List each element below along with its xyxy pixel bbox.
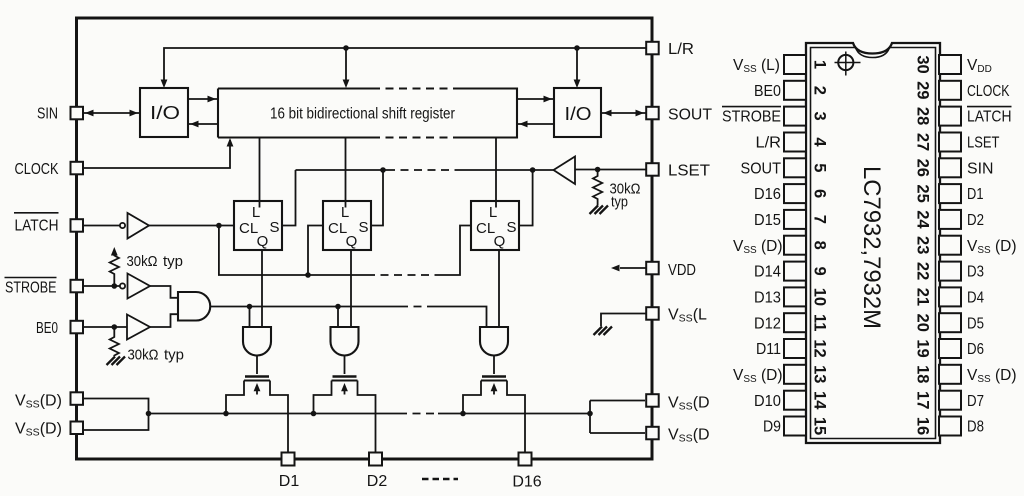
svg-text:10: 10 [811, 288, 829, 306]
svg-text:2: 2 [811, 86, 829, 95]
inverter STROBE buffer [82, 274, 150, 299]
transistor Q16 (output MOSFET D16) [463, 377, 525, 454]
svg-text:4: 4 [811, 137, 829, 147]
wire AND output bus [210, 304, 486, 327]
pin square D1 [282, 453, 295, 466]
svg-text:16: 16 [914, 417, 932, 435]
wire VSS(D) bus [83, 399, 645, 434]
svg-text:D4: D4 [967, 290, 984, 307]
svg-text:CL: CL [239, 220, 258, 237]
svg-text:L: L [489, 204, 497, 221]
ground at BE0 resistor [107, 357, 126, 366]
pin square LSET [646, 163, 659, 176]
label 30k typ at BE0 [128, 347, 185, 364]
svg-text:D12: D12 [754, 315, 781, 332]
pin 24 D2 [914, 210, 985, 229]
buffer LSET (triangle) [554, 157, 647, 185]
svg-text:L: L [341, 204, 349, 221]
svg-text:LATCH: LATCH [15, 218, 59, 235]
wire VSS(L) to ground [601, 314, 646, 327]
svg-text:D15: D15 [754, 212, 781, 229]
pin square VSS(D) left 1 [71, 392, 84, 405]
svg-text:typ: typ [164, 347, 184, 364]
buffer BE0 (triangle) [82, 315, 150, 340]
latch FF16 [471, 201, 519, 250]
svg-text:26: 26 [914, 159, 932, 177]
inverter LATCH buffer [83, 213, 149, 239]
pin 2 BE0 [754, 81, 829, 100]
pin 23 Vss(D) [914, 236, 1017, 256]
pin 6 D16 [754, 184, 829, 203]
svg-text:BE0: BE0 [754, 83, 781, 100]
svg-text:LSET: LSET [967, 135, 1000, 152]
svg-text:9: 9 [811, 267, 829, 276]
pin square VSS(D) right 2 [646, 427, 659, 440]
svg-text:typ: typ [163, 253, 183, 270]
pin 13 Vss(D) [733, 365, 829, 385]
svg-text:D8: D8 [967, 419, 984, 436]
svg-text:LSET: LSET [668, 163, 710, 180]
svg-text:S: S [507, 219, 517, 236]
pin 21 D4 [914, 287, 985, 306]
pin 20 D5 [914, 313, 985, 332]
pin 12 D11 [756, 339, 829, 358]
wire shift register to latch L inputs [260, 138, 497, 201]
wire CLOCK to shift register [83, 138, 233, 168]
svg-text:17: 17 [914, 391, 932, 409]
svg-text:D9: D9 [763, 419, 781, 436]
pin 19 D6 [914, 339, 985, 358]
pin square L/R [646, 42, 659, 55]
svg-text:I/O: I/O [150, 103, 180, 123]
wire I/O 1 to shift register (two arrows) [188, 96, 218, 128]
svg-text:VSS (D): VSS (D) [967, 238, 1017, 256]
svg-text:S: S [270, 219, 280, 236]
pin square D16 [519, 453, 532, 466]
AND gate A16 (driver 16) [480, 327, 508, 374]
pin 27 LSET [914, 133, 1000, 152]
svg-text:30: 30 [914, 55, 932, 73]
svg-text:L: L [252, 204, 260, 221]
pin 30 VDD [914, 55, 992, 75]
pin square LATCH [71, 219, 84, 232]
pin square D2 [369, 453, 382, 466]
pin square SIN [71, 107, 84, 120]
wire LATCH to latch CL inputs [149, 223, 471, 278]
svg-text:D14: D14 [754, 264, 781, 281]
svg-text:12: 12 [811, 339, 829, 357]
svg-text:CL: CL [328, 220, 347, 237]
svg-text:D1: D1 [967, 186, 984, 203]
wire I/O 2 to SOUT (bidirectional) [601, 110, 646, 117]
label 30k typ at LSET [610, 181, 641, 211]
svg-text:SIN: SIN [37, 106, 58, 123]
pin 1 index marker [835, 52, 861, 76]
svg-text:I/O: I/O [565, 104, 592, 124]
svg-text:typ: typ [611, 194, 628, 211]
svg-text:SOUT: SOUT [741, 160, 782, 177]
svg-text:3: 3 [811, 112, 829, 121]
resistor 30k pull at LSET [593, 167, 602, 206]
pin 7 D15 [754, 210, 829, 229]
svg-text:L/R: L/R [756, 135, 782, 152]
wire LSET net to latch S inputs [282, 167, 554, 225]
svg-text:D10: D10 [754, 393, 781, 410]
svg-text:VDD: VDD [668, 262, 696, 279]
svg-text:VSS (D): VSS (D) [733, 238, 783, 256]
pin 16 D8 [914, 417, 985, 436]
svg-text:Q: Q [494, 233, 506, 250]
svg-text:13: 13 [811, 365, 829, 383]
arrowhead into I/O 1 top [161, 80, 168, 89]
pin 10 D13 [754, 287, 829, 306]
transistor Q1 (output MOSFET D1) [226, 377, 288, 454]
svg-text:STROBE: STROBE [5, 280, 57, 297]
svg-text:14: 14 [811, 391, 829, 410]
svg-text:D16: D16 [512, 474, 541, 491]
border frame of block diagram [77, 18, 653, 459]
wire shift register to I/O 2 (two arrows) [517, 96, 554, 128]
svg-text:D1: D1 [279, 473, 300, 490]
pin square BE0 [71, 321, 84, 334]
svg-text:L/R: L/R [668, 41, 694, 58]
svg-text:8: 8 [811, 241, 829, 250]
wire L/R net [164, 48, 646, 85]
node junction L/R to shift register [343, 45, 349, 51]
svg-text:D16: D16 [754, 186, 781, 203]
svg-text:CLOCK: CLOCK [15, 161, 59, 178]
16 bit bidirectional shift register block [218, 89, 517, 138]
pin 9 D14 [754, 262, 829, 281]
pin 1 Vss(L) [733, 55, 829, 75]
svg-text:28: 28 [914, 107, 932, 125]
ground at LSET resistor [590, 206, 609, 215]
svg-text:6: 6 [811, 189, 829, 198]
svg-text:D11: D11 [756, 341, 781, 358]
pin 4 L/R [756, 133, 829, 152]
resistor 30k pull-up at STROBE [110, 247, 119, 289]
pin 8 Vss(D) [733, 236, 829, 256]
svg-text:S: S [359, 219, 369, 236]
AND gate A2 (driver 2) [331, 327, 359, 374]
arrowhead into shift register top [343, 80, 350, 89]
pin 5 SOUT [741, 158, 829, 177]
svg-text:LATCH: LATCH [967, 109, 1012, 126]
svg-text:D3: D3 [967, 264, 984, 281]
AND gate U3 (STROBE and BE0) [150, 286, 210, 327]
arrowhead into I/O 2 top [574, 80, 581, 89]
svg-text:VSS (D): VSS (D) [967, 367, 1017, 385]
svg-text:19: 19 [914, 339, 932, 357]
IC package body LC7932 outer outline with notch [806, 43, 940, 443]
svg-text:11: 11 [811, 314, 829, 331]
svg-text:CL: CL [476, 220, 495, 237]
pin square SOUT [646, 107, 659, 120]
svg-text:1: 1 [811, 60, 829, 69]
svg-text:LC7932,7932M: LC7932,7932M [858, 166, 885, 329]
svg-text:D13: D13 [754, 290, 781, 307]
label 30k typ at STROBE [127, 253, 184, 270]
svg-text:VSS (D): VSS (D) [733, 367, 783, 385]
svg-text:SOUT: SOUT [668, 107, 712, 124]
pin 14 D10 [754, 391, 829, 410]
pin 25 D1 [914, 184, 984, 203]
svg-text:D2: D2 [367, 473, 388, 490]
svg-text:20: 20 [914, 314, 932, 332]
svg-text:D7: D7 [967, 393, 984, 410]
dashes between D2 and D16 [422, 478, 458, 481]
svg-text:STROBE: STROBE [722, 109, 781, 126]
pin 28 LATCH (overline) [914, 107, 1012, 126]
svg-text:D5: D5 [967, 315, 984, 332]
svg-text:CLOCK: CLOCK [967, 83, 1010, 100]
pin square STROBE [71, 280, 84, 293]
svg-text:21: 21 [914, 288, 932, 306]
pin square VSS(L) [646, 307, 659, 320]
wire latch Q outputs to AND gates [262, 250, 499, 327]
svg-text:VSS (L): VSS (L) [733, 57, 780, 75]
svg-text:D2: D2 [967, 212, 984, 229]
svg-text:27: 27 [914, 133, 932, 151]
svg-text:24: 24 [914, 210, 932, 229]
svg-text:BE0: BE0 [36, 320, 58, 337]
latch FF1 [234, 201, 282, 250]
pin 3 STROBE (overline) [722, 107, 829, 126]
svg-text:Q: Q [257, 233, 269, 250]
svg-text:5: 5 [811, 163, 829, 172]
node junction L/R to I/O 2 [574, 45, 580, 51]
resistor 30k pull-down at BE0 [110, 324, 119, 356]
pin 11 D12 [754, 313, 829, 332]
pin 29 CLOCK [914, 81, 1011, 100]
svg-text:D6: D6 [967, 341, 984, 358]
pin square VSS(D) right 1 [646, 394, 659, 407]
svg-text:30kΩ: 30kΩ [127, 253, 158, 270]
svg-text:7: 7 [811, 215, 829, 224]
svg-text:SIN: SIN [967, 160, 994, 177]
svg-text:Q: Q [346, 233, 358, 250]
latch FF2 [323, 201, 371, 250]
svg-text:30kΩ: 30kΩ [128, 347, 159, 364]
pin square VDD [646, 262, 659, 275]
pin 22 D3 [914, 262, 985, 281]
svg-text:16 bit bidirectional shift re: 16 bit bidirectional shift register [270, 106, 455, 123]
svg-text:29: 29 [914, 81, 932, 99]
I/O block U2 [554, 88, 601, 137]
wire VDD arrow [611, 265, 646, 272]
svg-text:23: 23 [914, 236, 932, 254]
transistor Q2 (output MOSFET D2) [314, 377, 376, 454]
svg-text:22: 22 [914, 262, 932, 280]
pin square CLOCK [71, 162, 84, 175]
svg-text:25: 25 [914, 184, 932, 202]
AND gate A1 (driver 1) [243, 327, 271, 374]
pin 17 D7 [914, 391, 985, 410]
IC package body inner outline [811, 48, 936, 439]
svg-text:15: 15 [811, 417, 829, 435]
svg-text:18: 18 [914, 365, 932, 383]
ground at VSS(L) [594, 327, 613, 336]
I/O block U1 [140, 88, 188, 137]
pin 15 D9 [763, 417, 829, 436]
wire SIN to I/O 1 (bidirectional) [83, 110, 140, 117]
pin 26 SIN [914, 158, 994, 177]
pin 18 Vss(D) [914, 365, 1017, 385]
pin square VSS(D) left 2 [71, 422, 84, 435]
